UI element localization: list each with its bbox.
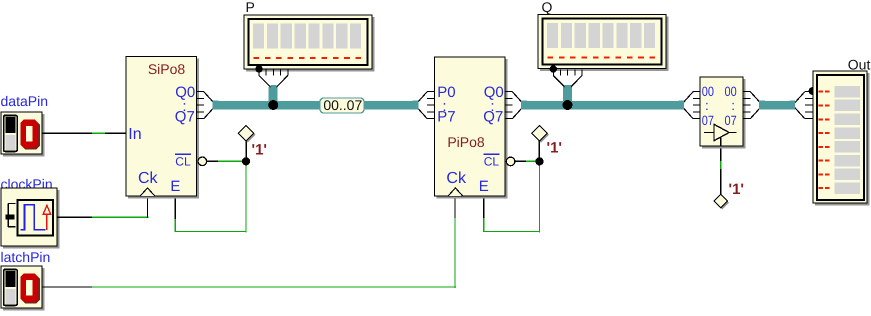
svg-text::: : bbox=[731, 98, 735, 113]
svg-text:P: P bbox=[246, 0, 255, 15]
svg-text:E: E bbox=[479, 178, 489, 195]
svg-text:Out: Out bbox=[848, 56, 871, 72]
bus junction node at Q branch bbox=[563, 100, 573, 110]
wire clockPin to SiPo8 Ck (black segment) bbox=[57, 216, 92, 218]
bus wire SiPo8 to PiPo8 (00..07) bbox=[215, 101, 417, 110]
svg-text:'1': '1' bbox=[729, 181, 744, 198]
svg-text:Q: Q bbox=[542, 0, 553, 15]
wire dataPin to SiPo8 In (green segment) bbox=[92, 132, 105, 134]
wire latchPin to PiPo8 Ck (black segment) bbox=[42, 286, 92, 288]
wire clockPin to SiPo8 Ck (vertical black stub) bbox=[147, 196, 149, 219]
input switch dataPin label bbox=[1, 93, 48, 109]
svg-text:latchPin: latchPin bbox=[1, 249, 51, 265]
wire dataPin to SiPo8 In (black segment) bbox=[42, 132, 92, 134]
svg-text:Ck: Ck bbox=[138, 170, 159, 187]
svg-text:00: 00 bbox=[702, 84, 714, 99]
svg-text:PiPo8: PiPo8 bbox=[447, 134, 485, 150]
SiPo8 Ck clock-edge triangle bbox=[140, 188, 154, 196]
svg-text:00..07: 00..07 bbox=[323, 97, 362, 113]
display Q input collector bbox=[550, 65, 583, 94]
svg-text:07: 07 bbox=[725, 113, 737, 128]
PiPo8 Q output bus collector bbox=[505, 92, 527, 119]
svg-text:CL: CL bbox=[484, 155, 500, 169]
wire SiPo8 CL bubble to node (green) bbox=[218, 160, 243, 162]
input switch latchPin body bbox=[1, 266, 45, 311]
wire PiPo8 CL bubble to node (black) bbox=[515, 160, 526, 162]
wire driver enable (green segment) bbox=[720, 161, 722, 169]
svg-text:Q7: Q7 bbox=[483, 109, 503, 126]
constant '1' for SiPo8 CL/E bbox=[238, 125, 267, 165]
PiPo8 Ck clock-edge triangle bbox=[448, 188, 462, 196]
svg-text::: : bbox=[705, 98, 709, 113]
wire SiPo8 E pin down (black) bbox=[174, 197, 176, 219]
wire latchPin to PiPo8 Ck (vertical green segment) bbox=[454, 218, 456, 288]
display Out input collector bbox=[789, 87, 816, 119]
svg-text:In: In bbox=[128, 126, 141, 143]
wire clockPin to SiPo8 Ck (green segment) bbox=[92, 216, 148, 218]
shift register SiPo8 body bbox=[126, 57, 199, 199]
svg-text:'1': '1' bbox=[547, 140, 562, 157]
svg-text:SiPo8: SiPo8 bbox=[148, 61, 186, 77]
SiPo8 Q output bus collector bbox=[197, 92, 219, 119]
display Q (8-bit LED bar) bbox=[538, 0, 669, 71]
svg-text:dataPin: dataPin bbox=[1, 93, 48, 109]
bus branch up to display P bbox=[269, 87, 278, 106]
driver output bus collector bbox=[743, 92, 765, 119]
constant '1' for PiPo8 CL/E bbox=[532, 125, 562, 165]
constant '1' for driver enable bbox=[714, 181, 744, 209]
svg-text:E: E bbox=[170, 178, 180, 195]
bus junction node at P branch bbox=[268, 100, 278, 110]
wire driver enable to constant (black) bbox=[720, 169, 722, 195]
wire PiPo8 E pin down (black) bbox=[483, 197, 485, 219]
display Out (8-bit vertical LED) bbox=[813, 56, 870, 205]
wire driver enable down (black) bbox=[720, 146, 722, 161]
svg-text:'1': '1' bbox=[252, 142, 267, 159]
bus driver body bbox=[700, 77, 746, 149]
svg-text:CL: CL bbox=[175, 155, 191, 169]
clock generator clockPin label bbox=[1, 176, 53, 192]
PiPo8 CL inverter bubble bbox=[506, 157, 515, 166]
PiPo8 P input bus collector bbox=[413, 92, 435, 119]
wire latchPin to PiPo8 Ck (vertical black stub) bbox=[454, 196, 456, 219]
clock generator clockPin body bbox=[1, 188, 60, 249]
bus label 00..07 bbox=[320, 97, 364, 113]
wire PiPo8 E loop (green) bbox=[483, 161, 540, 232]
svg-text:Ck: Ck bbox=[446, 170, 467, 187]
bus wire driver to display Out bbox=[761, 101, 795, 110]
svg-text:00: 00 bbox=[725, 84, 737, 99]
register PiPo8 body bbox=[435, 57, 508, 199]
wire SiPo8 CL bubble to node (black) bbox=[207, 160, 218, 162]
driver input bus collector bbox=[679, 92, 701, 119]
display P (8-bit LED bar) bbox=[244, 0, 375, 72]
input switch dataPin body bbox=[1, 112, 45, 157]
bus branch up to display Q bbox=[563, 87, 572, 106]
wire dataPin to SiPo8 In (black segment 2) bbox=[105, 132, 127, 134]
svg-text:07: 07 bbox=[702, 113, 714, 128]
wire latchPin to PiPo8 Ck (green segment) bbox=[92, 286, 456, 288]
display P input collector bbox=[255, 65, 287, 94]
bus wire PiPo8 to driver bbox=[523, 101, 681, 110]
svg-text:Q7: Q7 bbox=[175, 109, 195, 126]
svg-text:P7: P7 bbox=[437, 109, 455, 126]
wire PiPo8 CL bubble to node (green) bbox=[526, 160, 537, 162]
SiPo8 CL inverter bubble bbox=[198, 157, 207, 166]
wire SiPo8 E loop (green) bbox=[175, 161, 246, 232]
input switch latchPin label bbox=[1, 249, 51, 265]
